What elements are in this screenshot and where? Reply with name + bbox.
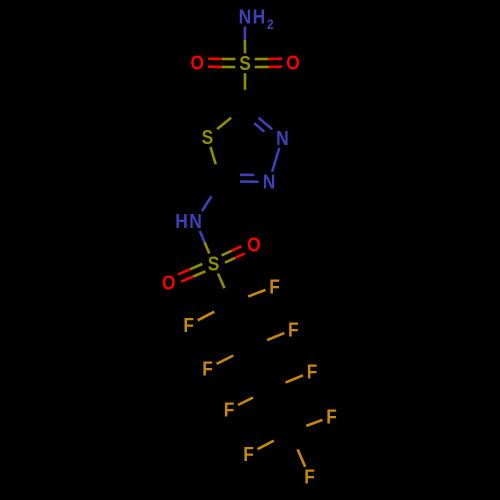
- svg-text:F: F: [224, 399, 235, 421]
- label O (right oxygen): [286, 53, 300, 75]
- bond C3-F (left): [238, 398, 253, 406]
- svg-text:F: F: [183, 315, 194, 337]
- svg-text:O: O: [247, 235, 261, 257]
- label F3a (fluorine): [307, 361, 318, 383]
- svg-text:N: N: [189, 211, 202, 233]
- bond C4-F: [306, 420, 322, 426]
- svg-text:2: 2: [267, 16, 274, 32]
- svg-text:N: N: [276, 128, 289, 150]
- ring bond C5-S1: [211, 147, 216, 164]
- bond C3-F: [286, 375, 304, 382]
- svg-text:N: N: [263, 172, 276, 194]
- svg-text:F: F: [304, 467, 315, 489]
- svg-text:F: F: [243, 444, 254, 466]
- ring bond N3-N4: [272, 148, 279, 172]
- label HN (amide nitrogen): [175, 211, 202, 233]
- svg-text:F: F: [307, 361, 318, 383]
- label O (upper right oxygen): [247, 235, 261, 257]
- bond S-C1: [218, 274, 225, 289]
- svg-text:O: O: [162, 273, 176, 295]
- bond C4-F (bottom): [298, 449, 306, 466]
- double bond S=O right: [255, 59, 283, 67]
- bond S-C ring top: [244, 73, 247, 90]
- bond N-S (sulfonamide): [244, 26, 247, 53]
- label F4b (fluorine): [243, 444, 254, 466]
- label NH2 (sulfonamide nitrogen): [239, 6, 274, 32]
- label F2a (fluorine): [288, 319, 299, 341]
- label S (ring sulfur): [202, 127, 214, 149]
- label S (sulfonamide sulfur): [239, 53, 251, 75]
- label F2b (fluorine): [202, 358, 213, 380]
- double bond S=O upper right: [222, 246, 245, 262]
- svg-text:O: O: [191, 53, 205, 75]
- bond C1-F (left): [198, 312, 215, 321]
- bond C2-F (left): [217, 356, 234, 364]
- bond C1-F: [248, 290, 265, 297]
- svg-text:H: H: [253, 6, 266, 28]
- bond C5-NH: [202, 196, 212, 211]
- svg-text:N: N: [239, 6, 252, 28]
- bond C2-F: [267, 333, 284, 340]
- double bond S=O lower left: [178, 264, 206, 282]
- label F4c (fluorine): [304, 467, 315, 489]
- svg-text:F: F: [288, 319, 299, 341]
- ring double bond C5=N4: [240, 175, 259, 182]
- label F4a (fluorine): [326, 406, 337, 428]
- svg-text:F: F: [202, 358, 213, 380]
- ring bond S1-C2: [217, 118, 231, 129]
- svg-text:F: F: [326, 406, 337, 428]
- label O (left oxygen): [191, 53, 205, 75]
- svg-text:H: H: [175, 211, 188, 233]
- svg-text:S: S: [208, 253, 220, 275]
- svg-text:F: F: [269, 276, 280, 298]
- ring double bond C2=N3: [254, 118, 272, 132]
- label S (sulfonyl sulfur): [208, 253, 220, 275]
- label O (lower left oxygen): [162, 273, 176, 295]
- bond C4-F (left): [258, 441, 274, 450]
- double bond S=O left: [208, 59, 235, 67]
- label F1a (fluorine): [269, 276, 280, 298]
- bond N-S (sulfonyl): [200, 231, 210, 254]
- label F3b (fluorine): [224, 399, 235, 421]
- svg-text:O: O: [286, 53, 300, 75]
- label N (ring nitrogen 4): [263, 172, 276, 194]
- svg-text:S: S: [202, 127, 214, 149]
- svg-text:S: S: [239, 53, 251, 75]
- label F1b (fluorine): [183, 315, 194, 337]
- label N (ring nitrogen 3): [276, 128, 289, 150]
